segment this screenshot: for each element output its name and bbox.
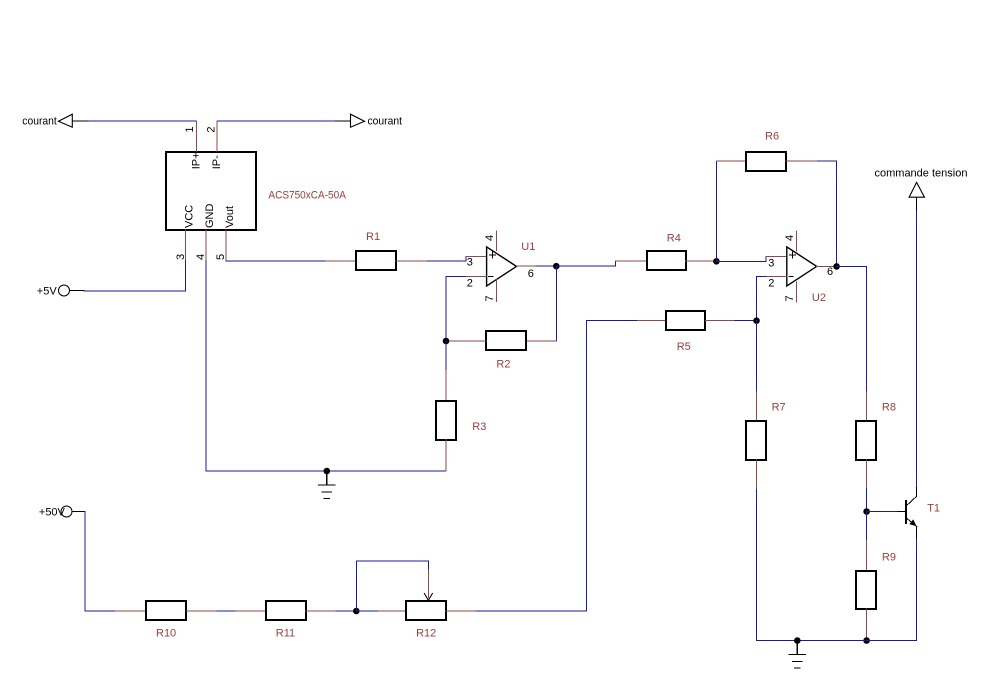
svg-text:3: 3 [467, 256, 473, 268]
svg-text:VCC: VCC [184, 205, 196, 228]
node: ground junction (right) [794, 637, 801, 644]
svg-text:6: 6 [528, 268, 534, 280]
pin 4 stub (U1) [496, 231, 498, 251]
svg-text:1: 1 [184, 126, 196, 132]
svg-text:R2: R2 [496, 359, 510, 371]
wire: R5 right stub [705, 320, 735, 322]
wire: R8 bottom stub [866, 460, 868, 488]
wire: R1 left stub [326, 260, 356, 262]
wire: R6 right to U2 out junction [818, 161, 837, 266]
node: wiper junction [353, 608, 360, 615]
wire: wiper stub [427, 570, 429, 598]
node: R5/R7/U2pin2 junction [753, 317, 760, 324]
wire: GND net vertical + horizontal to R3 [206, 261, 446, 472]
wire: R10 to R11 [217, 610, 236, 612]
wire: +50V black segment [72, 511, 85, 513]
pin 4 GND stub [205, 230, 207, 260]
wire: +5V to VCC [84, 261, 186, 292]
pin 4 stub (U2) [796, 231, 798, 251]
node: U1 output junction [553, 263, 560, 270]
wire: R6 right stub [786, 160, 818, 162]
wire: U2 pin2 stub [766, 275, 787, 277]
terminal arrow: courant (left) [58, 114, 72, 127]
resistor R10 [146, 601, 186, 620]
svg-text:3: 3 [768, 258, 774, 270]
wire: U1 output stub pin6 [517, 265, 537, 267]
svg-text:7: 7 [784, 295, 796, 301]
svg-text:Vout: Vout [224, 206, 236, 228]
resistor R3 [436, 401, 456, 440]
wire: U2 pin3 stub [766, 255, 787, 257]
wire: R11 right stub [306, 610, 336, 612]
wiper arrowhead [424, 594, 432, 601]
svg-text:IP+: IP+ [191, 152, 203, 169]
wire: R5 to junction [735, 320, 757, 322]
wire: R4 left stub [616, 260, 647, 262]
wire: R10 right stub [186, 610, 217, 612]
node: base junction [863, 508, 870, 515]
wire: junction to U2 pin3 [716, 256, 766, 261]
svg-text:courant: courant [368, 116, 403, 128]
wire: R12 to R5 riser [476, 610, 587, 612]
wire: R1 right stub [396, 260, 427, 262]
terminal +50V [61, 506, 72, 517]
node: R9 bottom junction [863, 637, 870, 644]
wire: junction to R12 [356, 610, 378, 612]
wire: arrow stem black [916, 197, 918, 210]
pin 7 stub (U2) [796, 282, 798, 302]
wire: R3 top stub [445, 371, 447, 401]
wire: R9 bottom stub [866, 609, 868, 640]
wire: R12 wiper loop [356, 561, 428, 611]
wire: courant left net [87, 120, 197, 122]
resistor R1 [356, 251, 396, 270]
resistor R5 [666, 311, 705, 330]
terminal +5V [59, 285, 70, 296]
svg-text:U2: U2 [812, 292, 826, 304]
wire: right arrow black segment [336, 120, 351, 122]
svg-text:2: 2 [768, 278, 774, 290]
pin 7 stub (U1) [496, 280, 498, 302]
svg-text:GND: GND [204, 204, 216, 229]
resistor R11 [266, 601, 306, 620]
svg-text:ACS750xCA-50A: ACS750xCA-50A [268, 189, 346, 201]
terminal arrow: commande tension [909, 182, 924, 197]
wire: bottom right rail [757, 640, 917, 642]
resistor R9 [856, 571, 876, 609]
wire: R7 top stub [756, 392, 758, 421]
ground (right) [789, 641, 805, 669]
wire: R4 right stub [686, 260, 717, 262]
node: U2 output junction [833, 263, 840, 270]
wire: base wire [867, 511, 898, 513]
wire: R8 to base junction [866, 488, 868, 511]
wire: R12 right stub [446, 610, 476, 612]
wire: R6 left stub [716, 160, 745, 162]
svg-text:6: 6 [827, 266, 833, 278]
svg-text:3: 3 [175, 254, 187, 260]
wire: R2 right stub [526, 340, 556, 342]
wire: U1 out to junction [536, 265, 556, 267]
wire: R9 top stub [866, 541, 868, 570]
wire: R11 left stub [236, 610, 266, 612]
pin 1 IP+ stub [196, 121, 198, 151]
svg-text:R7: R7 [772, 402, 786, 414]
wire: U1 out junction to R4 [556, 261, 615, 266]
wire: Vout to R1 [226, 260, 326, 262]
wire: R5 net from R12 [587, 321, 638, 611]
svg-text:R3: R3 [472, 421, 486, 433]
wire: R6 left vertical [715, 161, 717, 261]
op-amp U2 [787, 247, 817, 286]
wire: emitter down to rail [916, 539, 918, 641]
wire: U1 pin3 stub [466, 256, 487, 258]
wire: R5 left stub [637, 320, 666, 322]
wire: R9 top from base junction [866, 512, 868, 541]
svg-text:+5V: +5V [37, 286, 58, 298]
resistor R6 [746, 152, 786, 171]
svg-text:R12: R12 [416, 628, 436, 640]
svg-text:R1: R1 [366, 231, 380, 243]
pin 3 VCC stub [185, 230, 187, 260]
wire: R7 bottom stub [756, 460, 758, 490]
potentiometer R12 body [406, 601, 446, 620]
svg-text:R8: R8 [882, 402, 896, 414]
wire: R8 top stub [866, 392, 868, 421]
svg-text:R6: R6 [765, 130, 779, 142]
node: R2/R3/U1pin2 junction [443, 338, 450, 345]
wire: U1 pin2 stub [465, 275, 486, 277]
svg-text:4: 4 [484, 235, 496, 241]
wire: R10 left stub [115, 610, 145, 612]
wire: junction down to R2 right [555, 266, 557, 341]
op-amp U1 [487, 247, 517, 286]
node: R4/R6/U2pin3 junction [713, 258, 720, 265]
wire: R2 left stub [446, 340, 486, 342]
ground (left) [319, 471, 335, 499]
wire: U1 pin2 to R2/R3 junction [446, 276, 465, 341]
resistor R2 [486, 331, 526, 350]
svg-text:T1: T1 [927, 503, 940, 515]
wire: junction down to R7 [756, 321, 758, 392]
wire: base black segment [897, 511, 905, 513]
svg-text:U1: U1 [521, 241, 535, 253]
svg-text:5: 5 [215, 254, 227, 260]
pin 5 Vout stub [225, 230, 227, 261]
wire: junction to R3 [445, 341, 447, 371]
IC U3 ACS750xCA-50A body [166, 152, 256, 230]
wire: U2 out junction to R8 top [837, 266, 867, 392]
wire: R12 left stub [379, 610, 406, 612]
wire: +5V black segment [70, 290, 85, 292]
svg-text:R4: R4 [667, 233, 681, 245]
svg-text:R5: R5 [677, 341, 691, 353]
svg-text:4: 4 [195, 254, 207, 260]
svg-text:+50V: +50V [39, 507, 66, 519]
wire: left arrow black segment [72, 120, 88, 122]
transistor T1 [906, 486, 917, 539]
wire: R7 bottom to rail [756, 490, 758, 641]
wire: R1 to U1 pin3 [427, 257, 466, 261]
svg-text:4: 4 [784, 235, 796, 241]
wire: +50V down to R10 [85, 512, 115, 612]
svg-text:R11: R11 [276, 628, 295, 640]
wire: R11 to wiper junction [336, 610, 356, 612]
svg-text:R10: R10 [156, 628, 176, 640]
wire: collector up to arrow [916, 210, 918, 486]
resistor R8 [856, 421, 876, 460]
svg-text:commande tension: commande tension [875, 168, 968, 180]
resistor R4 [647, 251, 686, 270]
wire: U2 output stub pin6 [817, 265, 836, 267]
svg-text:2: 2 [206, 126, 218, 132]
terminal arrow: courant (right) [351, 114, 365, 127]
svg-text:R9: R9 [882, 551, 896, 563]
wire: R3 bottom stub [445, 440, 447, 471]
wire: U2 pin2 to R5 junction [757, 276, 767, 320]
pin 2 IP- stub [216, 121, 218, 151]
node: ground junction [324, 468, 331, 475]
svg-text:7: 7 [484, 295, 496, 301]
resistor R7 [746, 421, 766, 460]
svg-text:2: 2 [467, 278, 473, 290]
svg-text:courant: courant [22, 116, 57, 128]
wire: courant right net [217, 120, 336, 122]
svg-text:IP-: IP- [211, 155, 223, 169]
